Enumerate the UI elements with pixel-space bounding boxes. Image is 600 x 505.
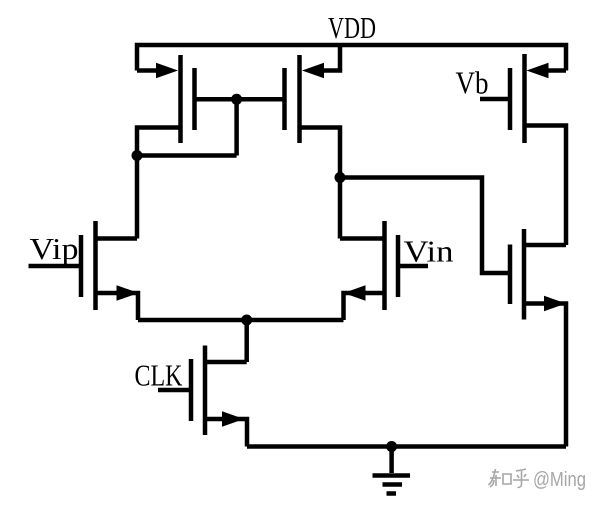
transistor M4 source arrow <box>344 285 366 301</box>
ground lead <box>389 447 394 474</box>
svg-text:Vip: Vip <box>30 231 79 266</box>
transistor M7 gate lead <box>480 97 510 102</box>
transistor M5 gate bar <box>189 359 194 421</box>
wire: common source rail <box>138 318 344 323</box>
transistor M5 gate lead <box>158 388 191 393</box>
svg-text:@Ming: @Ming <box>533 469 586 491</box>
transistor M4 gate bar <box>396 235 401 297</box>
transistor M4 channel bar <box>382 221 387 310</box>
transistor M6 (output NMOS) gate bar <box>508 245 513 305</box>
transistor M3 source arrow <box>117 285 139 301</box>
node: gate junction dot <box>231 94 242 105</box>
wire: gate to drain tie vertical <box>234 99 239 155</box>
transistor M7 channel bar <box>522 54 527 143</box>
transistor M6 source arrow <box>544 296 566 312</box>
transistor M2 channel bar <box>297 55 302 143</box>
transistor M6 source lead <box>524 304 566 447</box>
wire: bottom rail <box>247 444 566 449</box>
node: right drain junction dot <box>335 172 346 183</box>
wire: tail node down to M5 <box>244 320 249 362</box>
wire: drain tie horizontal <box>137 153 237 158</box>
transistor M4 source lead <box>344 293 385 320</box>
transistor M4 drain lead <box>340 236 385 241</box>
transistor M5 source arrow <box>222 411 244 427</box>
svg-text:Vin: Vin <box>404 234 455 269</box>
transistor M3 (Vip input NMOS) gate lead <box>29 264 82 269</box>
transistor M6 channel bar <box>522 229 527 320</box>
node: tail junction dot <box>241 315 252 326</box>
transistor M3 drain lead <box>96 236 138 241</box>
transistor M3 channel bar <box>93 221 98 310</box>
VDD rail <box>137 45 566 71</box>
transistor M5 source lead <box>205 419 247 447</box>
svg-text:Vb: Vb <box>456 65 489 101</box>
transistor M1 channel bar <box>178 55 183 143</box>
transistor M7 source arrow <box>527 63 549 79</box>
ground bar 1 <box>373 473 411 478</box>
transistor M2 drain lead <box>300 128 341 239</box>
transistor M2 gate bar <box>282 68 287 130</box>
transistor M6 drain lead <box>524 243 566 248</box>
transistor M3 gate bar <box>79 235 84 297</box>
transistor M4 (Vin input NMOS) gate lead <box>398 264 428 269</box>
svg-text:CLK: CLK <box>135 358 183 393</box>
ground bar 3 <box>387 491 397 496</box>
transistor M2 (right mirror PMOS) source lead <box>320 45 340 71</box>
transistor M1 (left mirror PMOS) source lead <box>137 68 160 73</box>
transistor M2 source arrow <box>302 63 324 79</box>
transistor M3 source lead <box>96 293 139 320</box>
transistor M7 gate bar <box>508 68 513 130</box>
wire: mirror gates <box>195 97 285 102</box>
transistor M1 source arrow <box>156 63 178 79</box>
svg-text:VDD: VDD <box>328 10 376 45</box>
node: left drain junction dot <box>132 150 143 161</box>
wire: left branch down to M3 drain <box>135 156 140 239</box>
transistor M7 (Vb bias PMOS) source lead <box>548 68 566 73</box>
transistor M5 channel bar <box>203 346 208 436</box>
ground bar 2 <box>383 482 403 487</box>
node: ground junction dot <box>386 441 397 452</box>
watermark: 知 glyph <box>489 469 512 487</box>
transistor M1 drain lead <box>137 128 181 156</box>
transistor M7 drain lead <box>525 126 567 246</box>
transistor M5 (CLK tail NMOS) drain lead <box>205 360 247 365</box>
wire: output gate feed <box>340 178 510 274</box>
transistor M1 gate bar <box>192 68 197 130</box>
watermark: 乎 glyph <box>513 469 529 488</box>
